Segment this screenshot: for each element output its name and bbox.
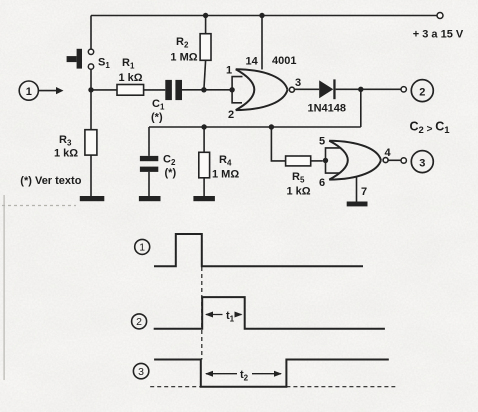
wire left drop from rail to S1 <box>90 16 92 50</box>
wire waveform 3 trace <box>154 360 389 387</box>
pin bracket inputs 5,6 <box>326 148 341 173</box>
svg-text:(*) Ver texto: (*) Ver texto <box>20 175 81 187</box>
wire node A to R1 <box>91 89 117 91</box>
op-amp U1b NOR gate <box>319 136 392 202</box>
scan artifact left edge line <box>4 195 5 380</box>
ground pin 7 <box>347 202 368 207</box>
svg-text:1 kΩ: 1 kΩ <box>118 72 142 84</box>
node t1 dimension arrow <box>205 310 243 324</box>
node D junction (R5 branch) <box>269 124 274 129</box>
output bubble pin 3 <box>289 87 294 92</box>
capacitor C2 <box>140 127 177 196</box>
svg-text:1 MΩ: 1 MΩ <box>170 52 197 64</box>
svg-text:5: 5 <box>319 136 325 148</box>
ground R3 <box>80 196 105 201</box>
svg-text:2: 2 <box>228 109 234 121</box>
node wave1 marker circle 1 <box>135 239 150 254</box>
svg-text:1: 1 <box>139 242 145 254</box>
wire dashed time reference vertical <box>201 267 203 360</box>
node wave3 marker circle 3 <box>133 363 148 378</box>
svg-text:1: 1 <box>26 86 32 98</box>
wire R1 to C1 <box>144 89 166 91</box>
svg-text:2: 2 <box>136 316 142 328</box>
svg-text:14: 14 <box>246 56 259 68</box>
node wave2 marker circle 2 <box>132 314 147 329</box>
wire bus down to R5 <box>271 127 285 161</box>
svg-text:2: 2 <box>419 86 425 98</box>
svg-text:1N4148: 1N4148 <box>308 103 347 115</box>
wire diode to terminal 2 <box>336 88 401 90</box>
wire node C down to bus <box>360 89 362 127</box>
svg-text:4001: 4001 <box>272 55 296 67</box>
node B junction (R2 bottom) <box>201 87 206 92</box>
ground C2 <box>139 196 161 201</box>
svg-text:1: 1 <box>226 65 232 77</box>
resistor R1 <box>117 57 144 95</box>
pin 14 wire <box>261 16 263 70</box>
resistor R5 <box>286 156 323 198</box>
resistor R3 <box>54 90 97 196</box>
capacitor C1 <box>151 80 182 124</box>
wire S1 to node A <box>90 69 92 90</box>
wire horizontal bus <box>149 126 361 128</box>
terminal 1 <box>19 81 63 100</box>
svg-text:(*): (*) <box>151 112 163 124</box>
terminal +V open circle <box>437 13 443 19</box>
output bubble pin 4 <box>383 158 388 163</box>
svg-text:6: 6 <box>319 177 325 189</box>
svg-text:4: 4 <box>385 147 392 159</box>
wire gate1 output to diode <box>294 88 319 90</box>
svg-text:+ 3 a 15 V: + 3 a 15 V <box>413 29 464 41</box>
wire waveform 1 trace <box>154 234 363 266</box>
svg-text:1 kΩ: 1 kΩ <box>287 186 311 198</box>
svg-text:7: 7 <box>361 186 367 198</box>
svg-text:3: 3 <box>138 366 144 378</box>
terminal 2 <box>401 80 433 102</box>
resistor R4 <box>199 124 240 196</box>
pin 7 wire <box>356 177 358 202</box>
switch S1 <box>67 49 111 70</box>
pin bracket inputs 1,2 <box>232 77 242 103</box>
wire dashed reference baseline <box>150 386 395 388</box>
op-amp U1a NOR gate 4001 <box>226 13 301 121</box>
node C junction (diode output) <box>358 87 363 92</box>
svg-text:3: 3 <box>295 77 301 89</box>
wire top supply rail <box>91 15 437 17</box>
gate body <box>236 69 255 110</box>
terminal 3 <box>388 151 433 173</box>
svg-text:1 kΩ: 1 kΩ <box>54 148 78 160</box>
scan artifact dashes near R3 ground <box>2 205 76 207</box>
wire C1 to gate input <box>182 89 232 91</box>
node A junction <box>88 87 93 92</box>
gate body <box>329 141 348 180</box>
node t2 dimension arrow <box>205 369 282 383</box>
diode D1 1N4148 <box>308 79 347 114</box>
svg-text:1 MΩ: 1 MΩ <box>212 169 239 181</box>
svg-text:(*): (*) <box>165 167 177 179</box>
ground R4 <box>193 196 215 201</box>
svg-text:3: 3 <box>419 157 425 169</box>
resistor R2 <box>170 13 211 90</box>
wire waveform 2 trace <box>154 297 385 329</box>
